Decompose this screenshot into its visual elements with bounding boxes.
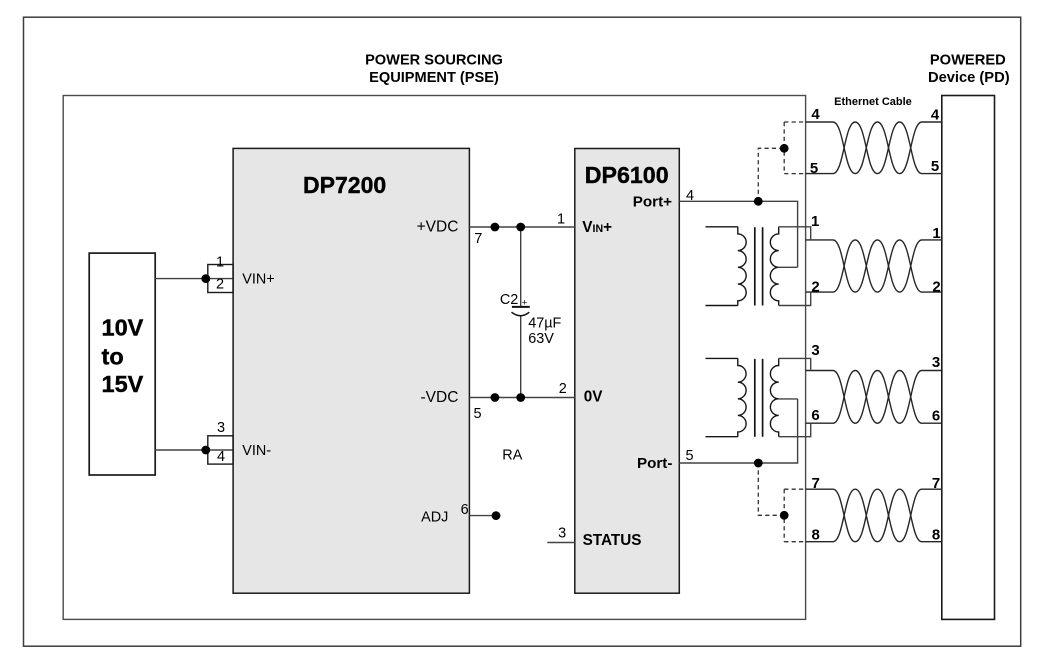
svg-text:1: 1	[811, 213, 819, 230]
svg-text:POWERED: POWERED	[930, 52, 1006, 68]
svg-text:8: 8	[932, 527, 940, 544]
svg-text:5: 5	[810, 160, 818, 177]
svg-text:3: 3	[932, 354, 940, 371]
svg-text:STATUS: STATUS	[583, 532, 642, 549]
svg-text:1: 1	[932, 225, 940, 242]
svg-text:63V: 63V	[528, 331, 554, 347]
svg-text:4: 4	[811, 106, 820, 123]
svg-text:DP6100: DP6100	[585, 162, 669, 188]
svg-text:15V: 15V	[102, 371, 144, 397]
svg-text:+VDC: +VDC	[417, 219, 459, 236]
svg-text:7: 7	[812, 475, 820, 492]
svg-text:6: 6	[811, 407, 819, 424]
svg-text:4: 4	[686, 188, 694, 204]
svg-text:8: 8	[812, 527, 820, 544]
svg-text:2: 2	[559, 381, 567, 397]
svg-text:7: 7	[932, 475, 940, 492]
svg-text:6: 6	[932, 408, 940, 425]
svg-text:Port+: Port+	[633, 193, 672, 210]
svg-text:C2: C2	[500, 292, 518, 308]
svg-text:2: 2	[811, 279, 819, 296]
svg-text:0V: 0V	[584, 389, 604, 406]
svg-text:to: to	[102, 343, 124, 369]
svg-text:1: 1	[216, 255, 224, 271]
svg-text:1: 1	[557, 211, 565, 227]
svg-text:3: 3	[811, 342, 819, 359]
svg-text:3: 3	[217, 420, 225, 436]
svg-text:+: +	[522, 298, 528, 309]
svg-text:5: 5	[931, 158, 939, 175]
svg-text:EQUIPMENT (PSE): EQUIPMENT (PSE)	[369, 70, 499, 86]
svg-text:7: 7	[474, 231, 482, 247]
svg-text:DP7200: DP7200	[303, 172, 386, 198]
svg-text:Device (PD): Device (PD)	[928, 70, 1010, 86]
svg-text:Ethernet Cable: Ethernet Cable	[834, 96, 912, 108]
svg-text:6: 6	[461, 502, 469, 518]
svg-text:VIN-: VIN-	[242, 443, 271, 459]
svg-text:5: 5	[685, 448, 693, 464]
svg-text:VIN+: VIN+	[242, 272, 274, 288]
svg-text:4: 4	[931, 107, 940, 124]
svg-text:Port-: Port-	[637, 455, 672, 472]
svg-text:10V: 10V	[102, 314, 144, 340]
svg-text:RA: RA	[502, 448, 522, 464]
svg-text:POWER SOURCING: POWER SOURCING	[365, 52, 503, 68]
svg-text:3: 3	[558, 525, 566, 541]
svg-text:4: 4	[217, 449, 225, 465]
svg-text:47µF: 47µF	[528, 316, 561, 332]
svg-text:ADJ: ADJ	[421, 510, 448, 526]
svg-text:2: 2	[216, 277, 224, 293]
svg-text:5: 5	[473, 406, 481, 422]
svg-text:-VDC: -VDC	[421, 389, 459, 406]
svg-text:2: 2	[932, 279, 940, 296]
